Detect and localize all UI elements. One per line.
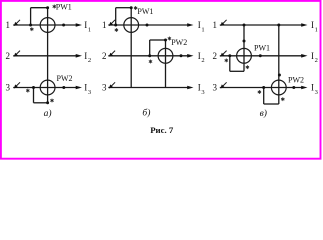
svg-text:I: I [311,51,314,61]
svg-text:1: 1 [315,26,318,33]
svg-text:Рис. 7: Рис. 7 [150,125,174,135]
svg-text:2: 2 [6,51,11,61]
svg-text:1: 1 [213,20,218,30]
svg-text:PW1: PW1 [56,2,72,11]
svg-text:1: 1 [102,20,107,30]
svg-text:PW1: PW1 [254,43,270,52]
svg-text:PW2: PW2 [57,74,73,83]
svg-text:PW1: PW1 [137,7,153,16]
svg-text:I: I [198,83,201,93]
svg-text:2: 2 [102,51,107,61]
svg-text:а): а) [44,108,52,119]
svg-text:I: I [84,51,87,61]
svg-text:2: 2 [88,57,91,64]
svg-text:3: 3 [88,89,91,96]
svg-text:I: I [84,83,87,93]
svg-text:I: I [84,20,87,30]
svg-text:3: 3 [315,89,318,96]
svg-text:1: 1 [201,26,204,33]
svg-text:I: I [311,83,314,93]
svg-text:I: I [198,20,201,30]
svg-text:2: 2 [201,57,204,64]
svg-text:2: 2 [213,51,218,61]
svg-text:3: 3 [102,83,107,93]
svg-text:2: 2 [315,57,318,64]
svg-text:PW2: PW2 [288,75,304,84]
svg-text:I: I [198,51,201,61]
svg-text:I: I [311,20,314,30]
svg-text:в): в) [260,108,267,119]
svg-text:3: 3 [201,89,204,96]
svg-text:1: 1 [6,20,11,30]
svg-text:б): б) [142,107,150,118]
svg-text:PW2: PW2 [171,38,187,47]
svg-text:3: 3 [6,83,11,93]
svg-text:3: 3 [213,83,218,93]
svg-text:1: 1 [88,26,91,33]
